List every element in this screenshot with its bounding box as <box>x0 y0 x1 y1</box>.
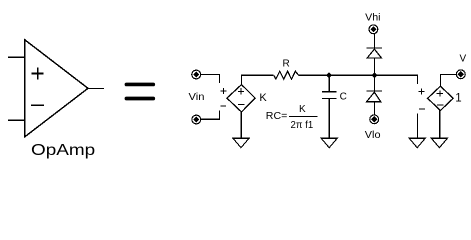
svg-text:C: C <box>340 91 347 102</box>
svg-text:K: K <box>259 92 267 104</box>
svg-text:V: V <box>460 53 467 64</box>
svg-text:K: K <box>299 104 306 115</box>
svg-text:1: 1 <box>455 93 461 105</box>
svg-text:Vhi: Vhi <box>365 12 380 23</box>
svg-text:RC=: RC= <box>266 111 288 122</box>
svg-text:2π f1: 2π f1 <box>291 120 314 131</box>
svg-text:Vlo: Vlo <box>365 130 381 141</box>
svg-text:OpAmp: OpAmp <box>31 142 95 159</box>
svg-text:R: R <box>283 59 290 70</box>
svg-text:Vin: Vin <box>189 92 205 103</box>
